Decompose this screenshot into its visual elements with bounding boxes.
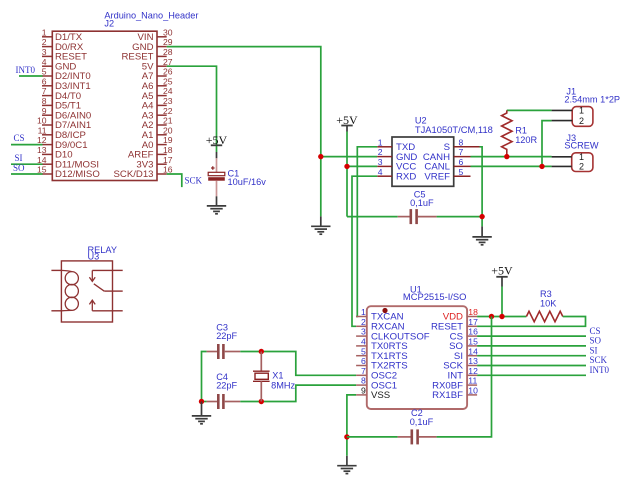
svg-text:CS: CS bbox=[590, 326, 601, 336]
svg-text:10: 10 bbox=[468, 386, 478, 396]
J1 pins bbox=[552, 109, 573, 111]
relay U3 bbox=[51, 245, 122, 322]
wire U2 RXD to U1 RXCAN bbox=[352, 176, 377, 326]
svg-text:D12/MISO: D12/MISO bbox=[55, 169, 100, 180]
capacitor C5 0,1uF bbox=[398, 190, 437, 225]
junction R1/CANH bbox=[504, 154, 509, 159]
wire C4 right to OSC1 bbox=[240, 385, 356, 401]
svg-text:SO: SO bbox=[590, 336, 602, 346]
svg-text:CS: CS bbox=[14, 133, 25, 143]
svg-text:6: 6 bbox=[361, 356, 366, 366]
svg-text:1: 1 bbox=[361, 307, 366, 317]
connector J1 2.54mm 1*2P bbox=[552, 86, 620, 126]
wire +5V to VDD row bbox=[501, 287, 503, 317]
wire CANL row to J3 pin2 bbox=[471, 165, 552, 167]
svg-text:2: 2 bbox=[361, 317, 366, 327]
resistor R1 120R bbox=[502, 110, 538, 156]
svg-text:9: 9 bbox=[361, 386, 366, 396]
wire net CS at J2 pin12 bbox=[11, 144, 43, 146]
wire J2 pin27 5V to +5V supply bbox=[167, 66, 217, 152]
junction X1 top bbox=[259, 349, 264, 354]
svg-text:16: 16 bbox=[163, 165, 173, 175]
svg-text:26: 26 bbox=[163, 67, 173, 77]
wire J1 pin2 down to CANL row bbox=[542, 121, 552, 167]
ground symbol below C5 bbox=[472, 226, 491, 244]
svg-text:29: 29 bbox=[163, 37, 173, 47]
wire net SI at U1 bbox=[477, 355, 586, 357]
svg-text:X1: X1 bbox=[272, 370, 283, 380]
connector J2 Arduino_Nano_Header bbox=[37, 10, 198, 180]
wire J2 pin16 SCK bbox=[167, 174, 182, 187]
svg-text:1: 1 bbox=[42, 27, 47, 37]
svg-text:16: 16 bbox=[468, 327, 478, 337]
svg-text:INT0: INT0 bbox=[16, 65, 36, 75]
wire C3 row left rail bbox=[202, 352, 207, 402]
svg-text:R3: R3 bbox=[540, 289, 552, 299]
svg-text:30: 30 bbox=[163, 27, 173, 37]
ground symbol below C1 bbox=[207, 196, 226, 214]
U2 left pins 1-4 bbox=[377, 146, 392, 148]
svg-text:5: 5 bbox=[459, 167, 464, 177]
svg-text:VSS: VSS bbox=[371, 390, 390, 401]
junction VDD/C2 bbox=[489, 314, 494, 319]
junction CANL/J1 bbox=[539, 164, 544, 169]
svg-text:2: 2 bbox=[378, 147, 383, 157]
IC U1 MCP2515-I/SO bbox=[356, 285, 478, 410]
svg-text:5: 5 bbox=[42, 67, 47, 77]
svg-text:3: 3 bbox=[361, 327, 366, 337]
svg-text:0,1uF: 0,1uF bbox=[410, 417, 434, 427]
svg-text:RX1BF: RX1BF bbox=[432, 390, 463, 401]
svg-text:13: 13 bbox=[468, 356, 478, 366]
wire C2 left bbox=[347, 436, 398, 438]
svg-text:7: 7 bbox=[459, 147, 464, 157]
svg-text:8: 8 bbox=[361, 376, 366, 386]
ground symbol below crystal caps bbox=[192, 402, 211, 424]
junction GND row bbox=[318, 154, 323, 159]
wire VDD row to R3 bbox=[477, 316, 526, 318]
svg-text:SCK/D13: SCK/D13 bbox=[114, 169, 154, 180]
svg-text:1: 1 bbox=[579, 106, 584, 116]
wire VCC row bbox=[347, 165, 377, 167]
power +5V supply at U2 VCC bbox=[336, 113, 358, 132]
svg-text:8: 8 bbox=[42, 96, 47, 106]
svg-text:VREF: VREF bbox=[424, 171, 450, 182]
svg-text:6: 6 bbox=[42, 76, 47, 86]
junction X1 bottom bbox=[259, 399, 264, 404]
svg-text:7: 7 bbox=[361, 366, 366, 376]
junction VCC row bbox=[344, 164, 349, 169]
U3 coil bbox=[65, 272, 78, 285]
wire +5V to VCC and C5 bbox=[346, 132, 348, 217]
svg-text:0,1uF: 0,1uF bbox=[410, 198, 434, 208]
U1 left pins 1-9 bbox=[356, 316, 367, 318]
svg-text:4: 4 bbox=[42, 57, 47, 67]
wire C5 left bbox=[347, 216, 398, 218]
svg-text:8MHz: 8MHz bbox=[271, 380, 295, 390]
svg-text:RXD: RXD bbox=[396, 171, 416, 182]
capacitor C3 22pF bbox=[207, 323, 241, 359]
svg-text:2.54mm 1*2P: 2.54mm 1*2P bbox=[564, 94, 620, 104]
svg-text:25: 25 bbox=[163, 76, 173, 86]
svg-text:INT0: INT0 bbox=[590, 365, 610, 375]
wire U1 VSS to ground rail bbox=[347, 395, 356, 456]
svg-text:12: 12 bbox=[37, 135, 47, 145]
svg-text:18: 18 bbox=[468, 307, 478, 317]
wire GND row to U2 pin2 bbox=[321, 156, 377, 158]
wire C3 right to OSC2 bbox=[240, 352, 356, 376]
capacitor C1 10uF/16v polarized bbox=[208, 158, 266, 196]
svg-text:J2: J2 bbox=[104, 19, 114, 29]
junction C2 left bbox=[344, 434, 349, 439]
ground symbol below pin29 wire bbox=[311, 216, 330, 234]
svg-text:5: 5 bbox=[361, 346, 366, 356]
junction C5/S ground bbox=[479, 214, 484, 219]
wire net SO at J2 pin15 bbox=[11, 173, 43, 175]
U3 pins bbox=[51, 269, 61, 271]
wire R1 top to J1 pin1 bbox=[507, 109, 552, 111]
U1 pin1 marker bbox=[382, 308, 387, 313]
svg-text:14: 14 bbox=[37, 155, 47, 165]
svg-text:10uF/16v: 10uF/16v bbox=[228, 177, 267, 187]
capacitor C2 0,1uF bbox=[398, 408, 437, 444]
svg-text:12: 12 bbox=[468, 366, 478, 376]
wire net CS at U1 bbox=[477, 335, 586, 337]
wire net SCK at U1 bbox=[477, 365, 586, 367]
svg-text:13: 13 bbox=[37, 145, 47, 155]
svg-text:SO: SO bbox=[13, 163, 25, 173]
svg-text:28: 28 bbox=[163, 47, 173, 57]
svg-text:Arduino_Nano_Header: Arduino_Nano_Header bbox=[104, 10, 198, 20]
wire C2 right up to VDD row bbox=[437, 317, 492, 437]
svg-text:23: 23 bbox=[163, 96, 173, 106]
svg-text:27: 27 bbox=[163, 57, 173, 67]
svg-text:24: 24 bbox=[163, 86, 173, 96]
svg-text:4: 4 bbox=[378, 167, 383, 177]
wire net INT0 at U1 bbox=[477, 374, 586, 376]
wire J2 pin29 GND to U2 GND and ground bbox=[167, 47, 321, 217]
svg-text:18: 18 bbox=[163, 145, 173, 155]
power +5V supply at C1 bbox=[206, 133, 228, 158]
svg-text:17: 17 bbox=[468, 317, 478, 327]
svg-text:1: 1 bbox=[579, 152, 584, 162]
wire U2 TXD to U1 TXCAN bbox=[356, 147, 377, 317]
svg-text:21: 21 bbox=[163, 116, 173, 126]
svg-text:1: 1 bbox=[378, 137, 383, 147]
IC U2 TJA1050T/CM,118 bbox=[377, 115, 493, 186]
svg-text:22pF: 22pF bbox=[216, 331, 237, 341]
svg-text:120R: 120R bbox=[515, 135, 537, 145]
svg-text:2: 2 bbox=[579, 162, 584, 172]
connector J3 SCREW bbox=[552, 133, 599, 172]
U1 right pins 18-10 bbox=[467, 316, 477, 318]
svg-text:3: 3 bbox=[378, 157, 383, 167]
svg-text:11: 11 bbox=[468, 376, 477, 386]
svg-text:9: 9 bbox=[42, 106, 47, 116]
crystal X1 8MHz bbox=[253, 352, 295, 402]
svg-text:3: 3 bbox=[42, 47, 47, 57]
svg-text:6: 6 bbox=[459, 157, 464, 167]
J2 left pins 1-15 bbox=[42, 36, 52, 38]
svg-text:8: 8 bbox=[459, 137, 464, 147]
svg-text:SI: SI bbox=[590, 345, 598, 355]
U3 switch bbox=[92, 269, 112, 271]
J2 right pins 30-16 bbox=[157, 36, 167, 38]
svg-text:4: 4 bbox=[361, 337, 366, 347]
U2 right pins 8-5 bbox=[454, 146, 480, 148]
wire net INT0 at J2 pin5 bbox=[19, 75, 43, 77]
svg-text:11: 11 bbox=[38, 125, 47, 135]
junction ground rail bbox=[199, 399, 204, 404]
svg-text:10K: 10K bbox=[540, 299, 557, 309]
junction VDD/+5V bbox=[499, 314, 504, 319]
svg-text:15: 15 bbox=[468, 337, 478, 347]
svg-text:22: 22 bbox=[163, 106, 173, 116]
wire U2 S pin to ground bbox=[480, 147, 483, 227]
svg-text:TJA1050T/CM,118: TJA1050T/CM,118 bbox=[415, 124, 493, 135]
svg-text:SCREW: SCREW bbox=[564, 140, 599, 150]
svg-text:U3: U3 bbox=[88, 251, 100, 261]
svg-text:SI: SI bbox=[15, 153, 23, 163]
svg-text:15: 15 bbox=[37, 165, 47, 175]
svg-text:2: 2 bbox=[42, 37, 47, 47]
svg-text:SCK: SCK bbox=[185, 176, 203, 186]
svg-text:22pF: 22pF bbox=[216, 380, 237, 390]
wire CANH row to J3 pin1 bbox=[471, 156, 552, 158]
capacitor C4 22pF bbox=[207, 372, 241, 409]
ground symbol below C2 bbox=[337, 456, 356, 474]
wire net SI at J2 pin14 bbox=[11, 163, 43, 165]
svg-text:19: 19 bbox=[163, 135, 173, 145]
wire net SO at U1 bbox=[477, 345, 586, 347]
wire C5 right to ground junction bbox=[437, 216, 483, 218]
svg-text:20: 20 bbox=[163, 125, 173, 135]
svg-text:R1: R1 bbox=[515, 125, 527, 135]
svg-text:10: 10 bbox=[37, 116, 47, 126]
svg-text:MCP2515-I/SO: MCP2515-I/SO bbox=[403, 291, 467, 302]
wire C4 left bbox=[202, 401, 207, 403]
svg-text:17: 17 bbox=[163, 155, 173, 165]
svg-text:14: 14 bbox=[468, 346, 478, 356]
svg-text:7: 7 bbox=[42, 86, 47, 96]
svg-text:SCK: SCK bbox=[590, 355, 608, 365]
svg-text:+5V: +5V bbox=[491, 264, 513, 278]
svg-text:2: 2 bbox=[579, 116, 584, 126]
power +5V supply at U1 VDD bbox=[491, 264, 513, 287]
J3 pins bbox=[552, 156, 572, 158]
resistor R3 10K bbox=[526, 289, 562, 322]
wire R3 to RESET row bbox=[477, 317, 585, 327]
